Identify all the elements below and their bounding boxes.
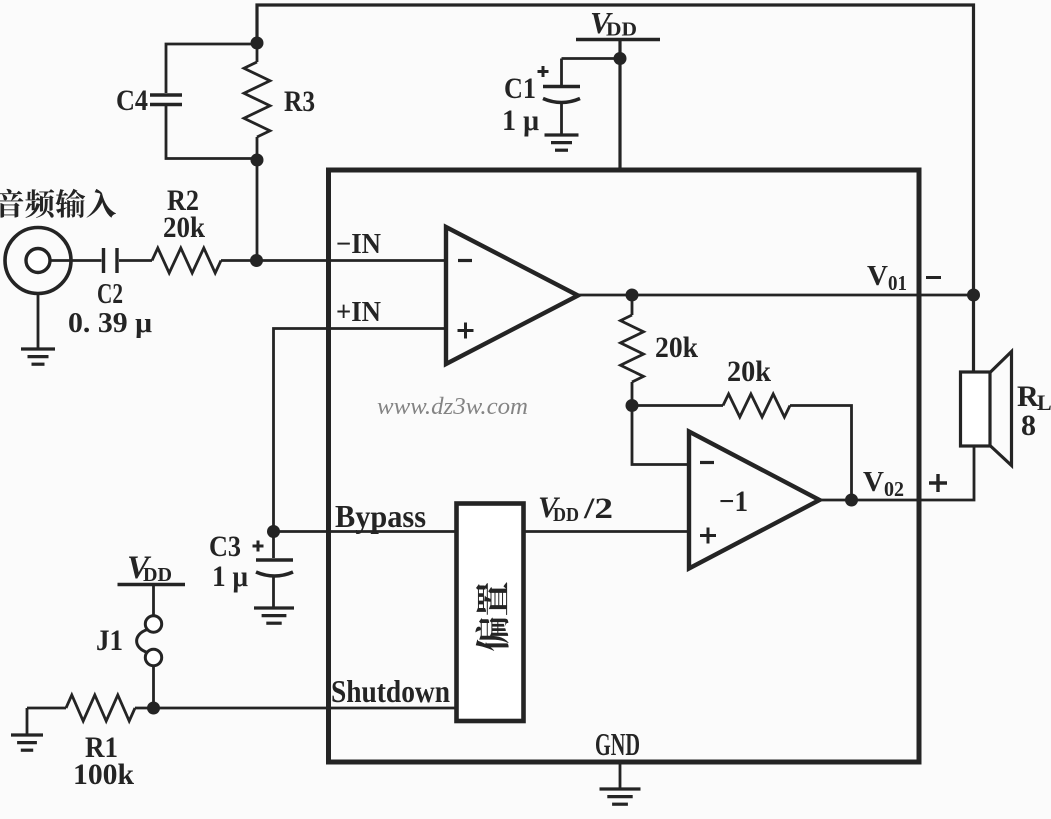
svg-text:DD: DD (553, 504, 579, 526)
svg-text:L: L (1037, 390, 1051, 415)
svg-text:20k: 20k (727, 355, 771, 388)
svg-text:V: V (863, 466, 884, 498)
svg-text:20k: 20k (655, 331, 698, 364)
svg-text:C4: C4 (116, 84, 148, 117)
svg-text:Bypass: Bypass (335, 498, 426, 534)
svg-text:20k: 20k (163, 211, 205, 244)
svg-text:V: V (867, 260, 888, 292)
svg-text:0. 39 μ: 0. 39 μ (68, 308, 152, 339)
svg-text:DD: DD (606, 19, 637, 41)
svg-text:C1: C1 (504, 72, 536, 105)
svg-text:www.dz3w.com: www.dz3w.com (377, 394, 528, 420)
svg-text:J1: J1 (96, 624, 123, 657)
svg-text:1 μ: 1 μ (502, 104, 539, 137)
svg-text:/2: /2 (583, 492, 613, 525)
svg-text:02: 02 (884, 477, 904, 501)
svg-text:8: 8 (1021, 409, 1036, 442)
svg-text:01: 01 (888, 271, 907, 295)
svg-text:100k: 100k (73, 758, 134, 791)
svg-text:−1: −1 (719, 485, 748, 518)
svg-text:R3: R3 (284, 85, 315, 118)
svg-text:C3: C3 (209, 530, 241, 563)
svg-text:1 μ: 1 μ (212, 560, 248, 593)
svg-text:Shutdown: Shutdown (331, 673, 450, 709)
svg-text:GND: GND (595, 726, 640, 762)
svg-text:DD: DD (143, 564, 172, 586)
svg-text:+IN: +IN (336, 297, 381, 328)
svg-text:C2: C2 (97, 279, 123, 310)
svg-text:−IN: −IN (336, 229, 381, 260)
